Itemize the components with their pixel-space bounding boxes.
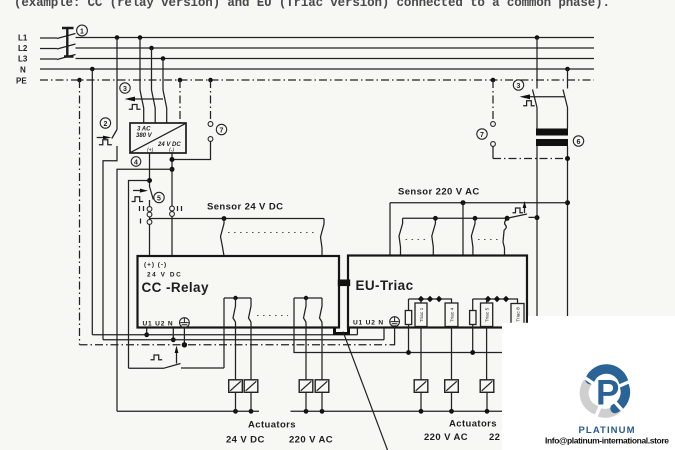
- node fuse1-bus: [406, 350, 411, 355]
- svg-text:24 V DC: 24 V DC: [226, 435, 265, 446]
- watermark white box: [502, 323, 675, 450]
- wire CC N terminal: [172, 328, 174, 340]
- contactor K3R lower stubs: [537, 108, 568, 129]
- annotation line to connector: [343, 332, 388, 450]
- wire bus to EU box left: [389, 203, 391, 256]
- node sensor C3: [473, 216, 478, 221]
- svg-text:24 V DC: 24 V DC: [147, 272, 182, 279]
- wire feed EU down: [462, 203, 464, 256]
- actuator A4: [315, 380, 329, 393]
- switch S2 blade: [112, 130, 117, 139]
- contactor K3R pulse symbol: [523, 101, 535, 106]
- node T6-PE link: [565, 156, 570, 161]
- minus connector circles: [170, 206, 175, 211]
- manual switch pulse: [151, 355, 163, 360]
- node earth-bus: [182, 342, 187, 347]
- node N-bus: [171, 337, 176, 342]
- svg-text:PE: PE: [16, 77, 27, 86]
- svg-text:CC -Relay: CC -Relay: [142, 280, 209, 295]
- svg-text:Triac 5: Triac 5: [484, 307, 490, 322]
- node actuator4 return: [320, 409, 325, 414]
- contactor K3 actuator bar with arrow: [131, 98, 163, 100]
- node actuator5 return: [419, 409, 424, 414]
- wire 220V phase drop: [536, 146, 538, 322]
- svg-text:EU-Triac: EU-Triac: [356, 278, 414, 293]
- svg-text:Info@platinum-international.st: Info@platinum-international.store: [545, 436, 669, 446]
- sensor contact C2: [432, 218, 436, 255]
- switch S5 arrow: [133, 190, 141, 192]
- svg-text:(example: CC (relay version) a: (example: CC (relay version) and EU (Tri…: [14, 0, 610, 10]
- svg-text:4: 4: [134, 159, 138, 166]
- label circle 5: [154, 192, 164, 202]
- wire contact K1 left stem to manual switch: [223, 298, 225, 368]
- svg-text:U1 U2 N: U1 U2 N: [143, 321, 174, 328]
- svg-text:PLATINUM: PLATINUM: [579, 425, 636, 436]
- actuator A3: [299, 380, 313, 393]
- node PE-left drop: [77, 78, 82, 83]
- switch S5 blade: [150, 187, 154, 200]
- actuator A2: [244, 380, 258, 393]
- main switch Q1 blades: [57, 34, 76, 60]
- wire triac5 to actuator A7: [486, 327, 488, 412]
- svg-text:220 V AC: 220 V AC: [424, 432, 468, 443]
- sensor bus 220V upper: [390, 202, 568, 204]
- node minus-PE branch: [170, 157, 175, 162]
- contactor K3 feed wires: [140, 38, 163, 91]
- disconnect 7 right wire upper (dash-dot): [492, 80, 494, 122]
- wire N right drop: [567, 69, 569, 89]
- triac arrows group2: [485, 296, 509, 303]
- svg-text:L3: L3: [18, 55, 28, 64]
- svg-text:380 V: 380 V: [136, 133, 153, 139]
- svg-text:Triac 1: Triac 1: [419, 307, 425, 322]
- node plus-left branch: [147, 178, 152, 183]
- svg-text:L2: L2: [18, 44, 28, 53]
- wire minus left branch to bottom bus: [117, 169, 172, 411]
- wire L2 rail: [40, 47, 594, 50]
- bus N (horizontal): [103, 339, 384, 341]
- svg-text:2: 2: [103, 121, 107, 128]
- plus connector circles: [147, 207, 152, 212]
- triac 1: [415, 299, 427, 327]
- wire L1 to switch S2: [116, 38, 118, 130]
- node L3-K3: [161, 56, 166, 61]
- wire L1 rail: [40, 37, 594, 40]
- wire to actuator A3: [305, 322, 307, 411]
- bus 220V actuators return: [291, 410, 511, 412]
- wire PE rail: [40, 79, 594, 81]
- sensor contact C1: [399, 218, 403, 255]
- switch S5 pulse symbol: [132, 197, 144, 202]
- disconnect 7 right terminals: [491, 122, 496, 127]
- svg-text:L1: L1: [18, 34, 28, 43]
- node switch 220 left: [505, 216, 510, 221]
- wire triac4 to actuator A6: [451, 327, 453, 412]
- label circle 2: [100, 118, 110, 128]
- isolating transformer T6 bars: [536, 129, 568, 136]
- wire 24VDC plus: [149, 153, 151, 256]
- svg-text:6: 6: [577, 139, 581, 146]
- svg-text:(-): (-): [169, 148, 174, 154]
- switch 220 blade: [507, 214, 537, 218]
- switch S2 pulse symbol: [99, 140, 112, 145]
- svg-text:3: 3: [123, 86, 127, 93]
- label circle 6: [573, 136, 583, 146]
- label circle 4: [131, 157, 141, 167]
- label circle 3 left: [120, 83, 130, 93]
- node U1-bus: [144, 332, 149, 337]
- node actuator1 return: [233, 409, 238, 414]
- contactor K3 lower stubs: [144, 108, 167, 123]
- mechanical link dotted (220V group1): [406, 239, 430, 241]
- node sensor C2: [433, 216, 438, 221]
- node feed EU: [461, 200, 466, 205]
- label circle 1: [77, 25, 88, 36]
- wire N rail: [40, 68, 594, 70]
- minus connector ticks: [178, 206, 182, 211]
- watermark logo petal gaps: [581, 375, 633, 420]
- contactor K3 pulse symbol: [129, 105, 141, 110]
- sensor contact B: [321, 219, 325, 257]
- node PE-disconnect7 left: [208, 78, 213, 83]
- svg-text:(+) (-): (+) (-): [144, 262, 167, 269]
- EU-Triac box: [348, 256, 527, 328]
- svg-text:Triac 8: Triac 8: [515, 307, 521, 322]
- disconnect 7 left wire lower: [172, 141, 211, 159]
- bottom connector plug: [335, 328, 349, 334]
- triac bus group2: [473, 299, 518, 304]
- svg-text:Actuators: Actuators: [449, 419, 497, 430]
- sensor contact C4: [503, 218, 507, 255]
- sensor contact C3: [471, 218, 475, 255]
- contactor K3R blades: [533, 90, 568, 108]
- node sensor bus 220 right: [565, 200, 570, 205]
- node fuse2-bus: [470, 350, 475, 355]
- wire to actuator A1: [235, 322, 237, 411]
- wire EU earth terminal: [394, 327, 396, 345]
- actuator A1: [229, 380, 243, 393]
- node actuator3 return: [304, 409, 309, 414]
- connector CC-EU: [338, 280, 350, 287]
- sensor contact A: [221, 219, 225, 257]
- node minus-left branch: [170, 167, 175, 172]
- bus PE (horizontal dash-dot): [80, 344, 396, 346]
- fuse F2: [470, 299, 476, 353]
- switch 220 arrow up: [524, 207, 526, 213]
- wire 24VDC minus: [171, 153, 173, 256]
- switch 220 pulse: [513, 208, 524, 213]
- node sensor contact A: [222, 216, 227, 221]
- wire triac1 to actuator A5: [420, 327, 422, 412]
- svg-text:P: P: [596, 374, 619, 413]
- actuator A5: [414, 380, 428, 393]
- mechanical link dotted (CC contacts): [257, 315, 288, 317]
- node L1-S2: [115, 35, 120, 40]
- wire L3 rail: [40, 58, 594, 61]
- node actuator6 return: [449, 409, 454, 414]
- wire PE to transformer (dash-dot): [179, 80, 181, 123]
- CC earth symbol: [180, 318, 190, 328]
- label circle 7 right: [477, 129, 487, 139]
- svg-text:U1 U2 N: U1 U2 N: [353, 320, 384, 327]
- wire 220V N drop: [567, 146, 569, 323]
- disconnect 7 right wire lower: [492, 146, 494, 158]
- sensor bus 24V: [150, 218, 325, 220]
- actuator A7: [480, 380, 494, 393]
- svg-text:1: 1: [80, 28, 84, 35]
- wire plus left branch: [129, 181, 150, 369]
- manual switch S-man bottom: [129, 364, 225, 369]
- wire L1 right drop: [536, 38, 538, 89]
- watermark logo petals: [584, 369, 625, 413]
- wire N left drop: [91, 69, 93, 335]
- mechanical link dotted (220V group2): [478, 239, 501, 241]
- wire CC U1 terminal: [146, 328, 148, 335]
- wire to actuator A4: [321, 322, 323, 411]
- label circle 3 right: [513, 80, 523, 90]
- svg-text:(+): (+): [147, 148, 154, 154]
- node PE-transformer: [178, 78, 183, 83]
- relay contact K2 (inside CC): [294, 296, 322, 322]
- manual switch arrow up: [176, 352, 178, 364]
- svg-text:3: 3: [517, 83, 521, 90]
- fuse F1: [405, 299, 411, 353]
- svg-text:Sensor 220 V AC: Sensor 220 V AC: [398, 187, 480, 198]
- switch S2 actuator arrow: [97, 137, 104, 139]
- disconnect 7 left wire upper (dash-dot): [210, 80, 212, 122]
- svg-text:3 AC: 3 AC: [137, 127, 151, 133]
- node L1 right drop: [535, 35, 540, 40]
- triac bus group1: [409, 299, 452, 303]
- triac 4: [445, 303, 458, 327]
- mechanical link dotted (24V sensors): [228, 232, 316, 234]
- svg-text:Actuators: Actuators: [248, 420, 296, 431]
- main switch Q1 tie bar: [62, 28, 74, 58]
- svg-text:7: 7: [480, 132, 484, 139]
- disconnect 7 left terminals: [208, 122, 213, 127]
- actuator A6: [445, 380, 459, 393]
- wire 7 right to transformer output (dash-dot): [493, 158, 568, 160]
- wire to actuator A2: [250, 322, 252, 411]
- bus 220V phase (from K2): [294, 298, 510, 353]
- svg-text:7: 7: [220, 127, 224, 134]
- node switch 220 right: [535, 215, 540, 220]
- node N-left drop: [90, 67, 95, 72]
- svg-text:Triac 4: Triac 4: [449, 307, 455, 322]
- svg-text:22: 22: [489, 432, 500, 443]
- wire EU U2 terminal: [383, 328, 385, 340]
- contactor K3 blades: [140, 90, 167, 108]
- wire S2 down and left: [103, 146, 117, 340]
- EU earth symbol: [390, 317, 400, 327]
- relay contact K1 (inside CC): [224, 296, 251, 322]
- node L1-K3: [138, 35, 143, 40]
- contactor K3R actuator bar with arrow: [526, 96, 565, 98]
- svg-text:N: N: [20, 66, 26, 75]
- sensor bus 220V lower: [403, 217, 508, 219]
- wire CC earth terminal: [183, 328, 185, 345]
- node actuator2 return: [249, 409, 254, 414]
- watermark logo P: [594, 380, 619, 405]
- label circle 7 left: [216, 124, 226, 134]
- triac 5: [481, 299, 493, 327]
- node actuator7 return: [485, 409, 490, 414]
- plus connector ticks: [140, 206, 144, 224]
- power supply U1 box: [130, 123, 186, 153]
- wire PE left drop (dash-dot): [79, 80, 81, 345]
- node PE right drop: [491, 78, 496, 83]
- svg-text:220 V AC: 220 V AC: [289, 435, 333, 446]
- bus 24VDC actuators return: [117, 410, 259, 412]
- wire EU U1 terminal: [356, 328, 358, 335]
- CC-Relay box: [138, 256, 340, 328]
- node L2-K3: [149, 46, 154, 51]
- triac 8: [511, 304, 524, 326]
- triac arrows group1: [418, 296, 442, 303]
- bus U1 (horizontal): [92, 334, 357, 336]
- svg-text:5: 5: [157, 195, 161, 202]
- node N right drop: [565, 67, 570, 72]
- svg-text:Sensor 24 V DC: Sensor 24 V DC: [207, 202, 283, 213]
